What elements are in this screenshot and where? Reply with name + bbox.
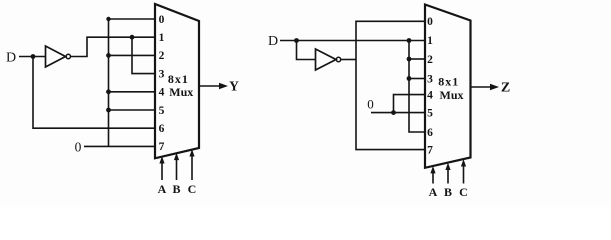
svg-text:C: C	[459, 185, 468, 199]
svg-text:Mux: Mux	[169, 85, 193, 99]
svg-text:3: 3	[427, 73, 433, 85]
svg-text:Y: Y	[229, 79, 239, 94]
svg-text:Z: Z	[501, 81, 510, 96]
svg-text:7: 7	[159, 141, 165, 153]
svg-text:1: 1	[427, 35, 433, 47]
svg-text:B: B	[444, 185, 452, 199]
svg-text:0: 0	[75, 139, 82, 154]
svg-text:0: 0	[367, 96, 374, 111]
svg-text:3: 3	[159, 68, 165, 80]
svg-text:D: D	[6, 50, 16, 65]
svg-text:D: D	[268, 34, 278, 49]
svg-text:5: 5	[159, 105, 165, 117]
svg-text:6: 6	[159, 123, 165, 135]
svg-text:8x1: 8x1	[438, 74, 459, 88]
svg-text:B: B	[172, 182, 180, 196]
svg-text:5: 5	[427, 107, 433, 119]
svg-text:4: 4	[159, 87, 165, 99]
svg-text:0: 0	[159, 14, 165, 26]
svg-text:2: 2	[159, 50, 165, 62]
svg-text:0: 0	[427, 16, 433, 28]
svg-text:6: 6	[427, 127, 433, 139]
svg-text:1: 1	[159, 32, 165, 44]
svg-text:A: A	[429, 185, 438, 199]
svg-text:Mux: Mux	[440, 88, 464, 102]
svg-text:C: C	[188, 182, 197, 196]
svg-text:4: 4	[427, 89, 433, 101]
svg-text:2: 2	[427, 54, 433, 66]
svg-text:A: A	[158, 182, 167, 196]
svg-text:8x1: 8x1	[168, 72, 189, 86]
svg-text:7: 7	[427, 144, 433, 156]
